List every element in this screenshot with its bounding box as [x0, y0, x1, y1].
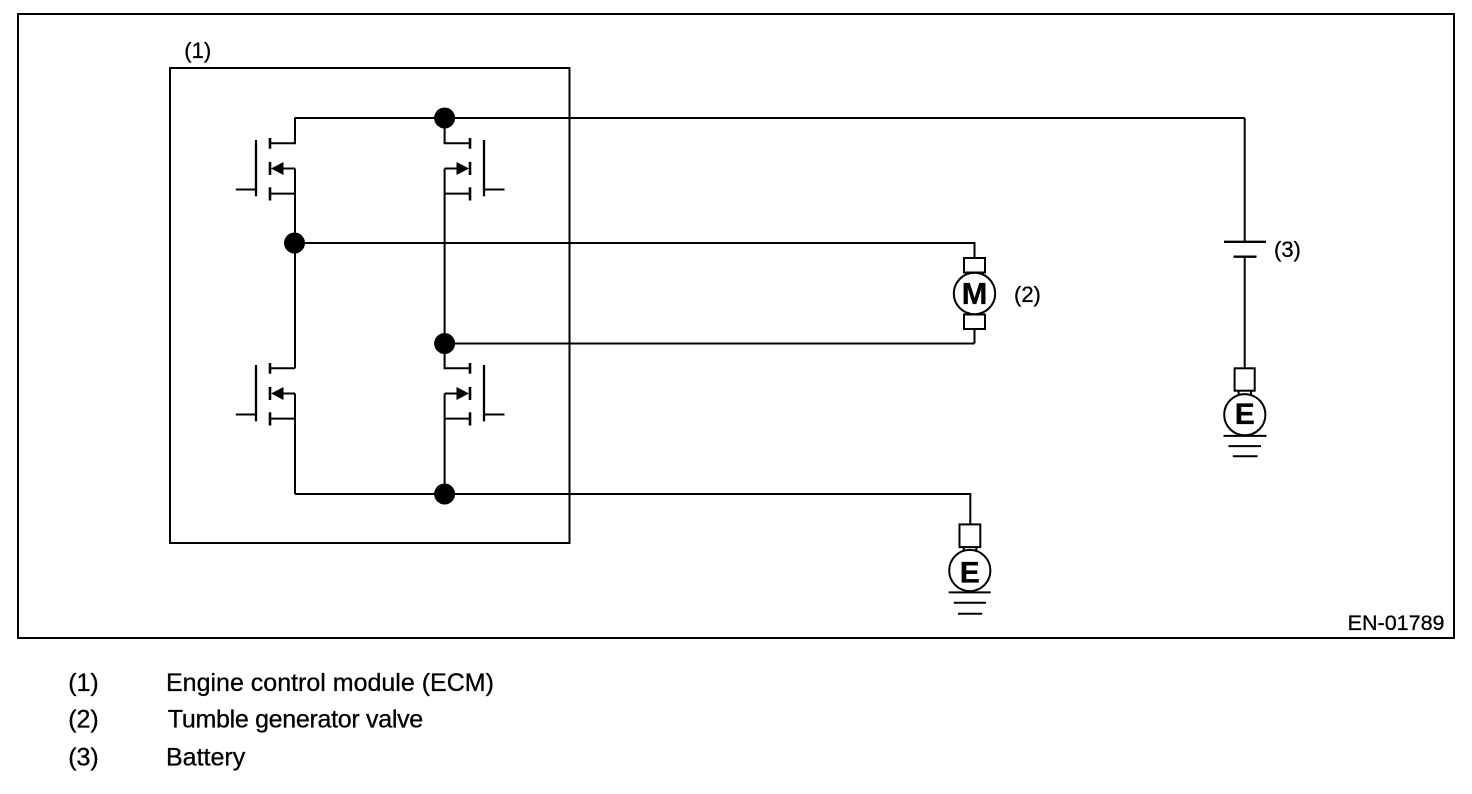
svg-text:EN-01789: EN-01789 [1348, 611, 1445, 635]
wire left column (node to Q3 drain) [294, 243, 296, 368]
node bottom junction [434, 484, 455, 505]
svg-text:Tumble generator valve: Tumble generator valve [168, 706, 423, 734]
svg-text:(1): (1) [68, 669, 99, 697]
wire motor bottom (mid-center node to motor) [445, 343, 975, 345]
svg-text:M: M [962, 276, 988, 311]
legend row 3 [68, 744, 245, 772]
ground E bottom (ECM earth) [949, 524, 991, 613]
node mid-center junction [434, 333, 455, 354]
svg-text:(3): (3) [1274, 237, 1301, 262]
wire battery drop [1244, 118, 1246, 242]
svg-text:E: E [960, 557, 980, 590]
battery (3) [1224, 242, 1266, 257]
label (2) [1014, 282, 1041, 307]
transistor Q3 (bottom-left MOSFET) [236, 363, 295, 494]
svg-text:E: E [1235, 398, 1255, 431]
node mid-left junction [284, 233, 305, 254]
wire top bus [295, 117, 1245, 119]
ECM box (1) [170, 68, 570, 543]
svg-text:(2): (2) [68, 706, 99, 734]
svg-text:(2): (2) [1014, 282, 1041, 307]
wire motor top (mid-left node to motor) [295, 243, 975, 258]
label EN-01789 [1348, 611, 1445, 635]
label (3) [1274, 237, 1301, 262]
svg-text:(3): (3) [68, 744, 99, 772]
transistor Q4 (bottom-right MOSFET) [445, 344, 505, 495]
svg-text:Battery: Battery [166, 744, 246, 772]
transistor Q2 (top-right MOSFET) [445, 118, 505, 344]
node top junction [434, 108, 455, 129]
svg-text:Engine control module (ECM): Engine control module (ECM) [166, 669, 494, 697]
diagram border frame [18, 14, 1454, 638]
svg-text:(1): (1) [184, 38, 211, 63]
motor M (2) tumble generator valve [954, 258, 995, 344]
wire battery to ground E [1244, 257, 1246, 369]
wire bottom bus [295, 494, 970, 524]
legend row 1 [68, 669, 494, 697]
label (1) ECM [184, 38, 211, 63]
transistor Q1 (top-left MOSFET) [236, 118, 295, 243]
legend row 2 [68, 706, 423, 734]
ground E right (battery earth) [1224, 368, 1267, 456]
